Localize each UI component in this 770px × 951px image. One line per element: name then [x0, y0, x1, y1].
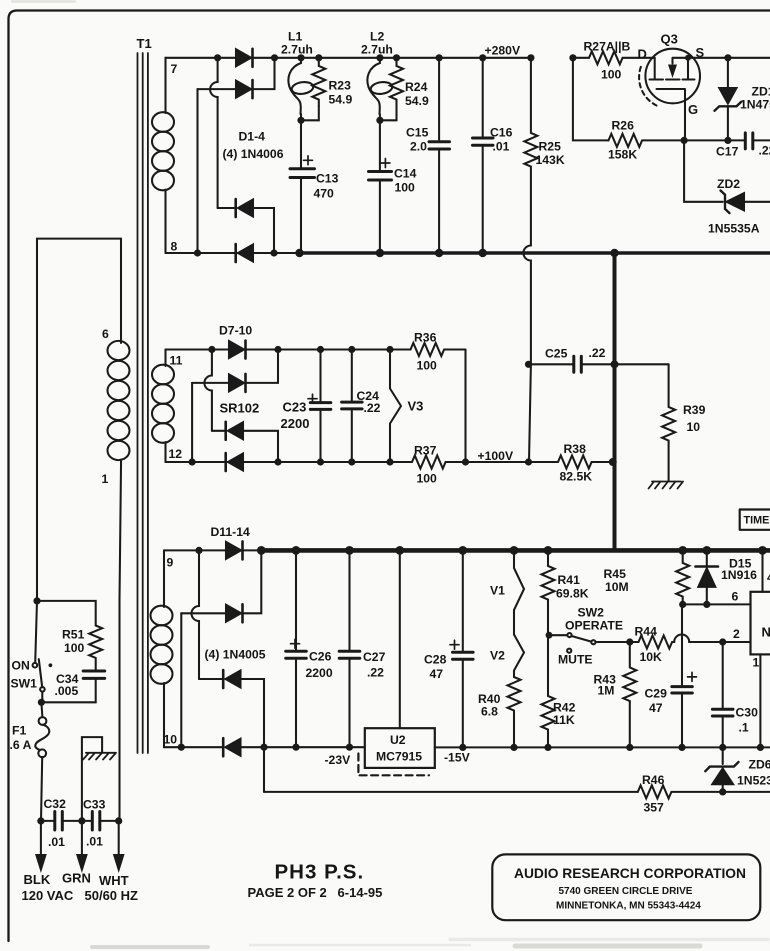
svg-text:MC7915: MC7915: [376, 750, 422, 764]
svg-text:ZD6: ZD6: [749, 758, 770, 772]
svg-text:2200: 2200: [306, 666, 333, 680]
diode D9: [228, 422, 243, 439]
svg-text:C13: C13: [316, 172, 339, 186]
svg-text:10: 10: [164, 733, 178, 747]
svg-text:R36: R36: [414, 331, 437, 345]
diode D2: [236, 81, 251, 98]
resistor R44: [639, 636, 673, 649]
wire D13 anode down across -23V to R46 row: [241, 679, 265, 792]
switch SW1: [35, 601, 37, 663]
svg-text:R23: R23: [329, 79, 352, 93]
diode D3: [238, 200, 253, 217]
svg-text:N: N: [762, 625, 770, 640]
resistor R39: [662, 364, 675, 481]
wire D8 anode row: [192, 382, 229, 384]
node ZD1 top: [724, 54, 731, 61]
svg-text:C28: C28: [424, 653, 447, 667]
wire C25 row: [529, 364, 531, 462]
svg-text:WHT: WHT: [99, 873, 129, 888]
svg-text:PAGE 2 OF 2 6-14-95: PAGE 2 OF 2 6-14-95: [248, 885, 383, 900]
svg-text:11: 11: [170, 354, 183, 368]
inductor L1: [297, 54, 304, 61]
node pin7 junction: [214, 54, 221, 61]
node pin12 left vertical: [189, 458, 196, 465]
resistor R36: [411, 343, 466, 356]
svg-text:69.8K: 69.8K: [556, 587, 589, 601]
svg-text:C16: C16: [490, 126, 513, 140]
svg-text:-15V: -15V: [444, 751, 471, 765]
svg-text:OPERATE: OPERATE: [565, 619, 623, 633]
svg-text:.22: .22: [589, 346, 606, 360]
resistor R45: [678, 546, 687, 555]
node C25 at thick line: [611, 360, 619, 368]
T1 winding 11-12 (secondary 2): [164, 350, 166, 367]
wire D3 cathode row to pin7 vertical: [218, 207, 235, 209]
tube heater V2: [514, 635, 524, 678]
svg-text:(4) 1N4006: (4) 1N4006: [223, 147, 284, 161]
wire pin9: [164, 549, 261, 551]
svg-text:R37: R37: [414, 444, 437, 458]
svg-text:U2: U2: [390, 733, 406, 747]
svg-text:Q3: Q3: [661, 32, 678, 47]
resistor R46: [638, 785, 770, 798]
svg-text:9: 9: [167, 556, 174, 570]
svg-text:7: 7: [171, 62, 178, 76]
resistor R51: [89, 626, 102, 671]
svg-text:SR102: SR102: [220, 401, 260, 416]
wire left vertical pin8 to D2 anode: [196, 89, 198, 253]
diode D14: [226, 739, 241, 756]
capacitor C25: [574, 356, 582, 372]
wire left vertical to pin10: [180, 613, 182, 747]
wire D2 anode row: [198, 88, 237, 90]
company box: [492, 854, 760, 920]
svg-text:D1-4: D1-4: [239, 130, 266, 144]
capacitor C17: [745, 133, 753, 149]
svg-text:V1: V1: [490, 584, 505, 598]
wire pin11 vertical with hop over D8 row: [204, 350, 211, 431]
svg-text:82.5K: 82.5K: [560, 470, 593, 484]
node D9 anode at pin12: [274, 458, 281, 465]
capacitor C32: [55, 812, 63, 831]
svg-text:R38: R38: [564, 442, 587, 456]
wire pin7 rail: [166, 57, 237, 59]
svg-text:D11-14: D11-14: [211, 525, 251, 539]
svg-text:GRN: GRN: [62, 871, 91, 886]
svg-text:158K: 158K: [608, 148, 637, 162]
wire D13 cathode row: [199, 678, 222, 680]
svg-text:C29: C29: [645, 687, 668, 701]
svg-text:1N5535A: 1N5535A: [708, 222, 760, 236]
svg-text:R45: R45: [604, 567, 627, 581]
diode D11: [226, 542, 241, 559]
svg-text:ZD2: ZD2: [717, 177, 740, 191]
svg-text:AUDIO RESEARCH CORPORATION: AUDIO RESEARCH CORPORATION: [514, 866, 746, 881]
TIME box: [740, 510, 770, 530]
switch SW2: [546, 632, 553, 639]
svg-text:54.9: 54.9: [405, 94, 429, 108]
diode D13: [226, 671, 241, 688]
wire R36 right down to +100V node: [464, 350, 466, 463]
wire BLK arrow: [40, 821, 42, 856]
node D8 join: [274, 346, 281, 353]
node WHT: [115, 817, 122, 824]
svg-text:.01: .01: [86, 835, 103, 849]
capacitor C26: [292, 546, 301, 555]
svg-text:100: 100: [64, 641, 85, 655]
wire R51 branch: [37, 601, 96, 626]
IC U2 MC7915: [395, 546, 404, 555]
wire D7 cathode along rail: [246, 348, 411, 350]
svg-text:R41: R41: [558, 573, 581, 587]
svg-text:D7-10: D7-10: [219, 324, 252, 338]
T1 primary winding 6-1: [120, 239, 122, 343]
svg-text:2: 2: [733, 627, 740, 641]
capacitor C33: [92, 812, 100, 831]
resistor R38: [529, 456, 613, 469]
svg-text:MUTE: MUTE: [558, 653, 593, 667]
tube heater V1: [510, 546, 519, 555]
svg-text:R44: R44: [635, 625, 658, 639]
node D3 anode at bus: [270, 249, 277, 256]
zener ZD1: [727, 58, 729, 88]
svg-text:SW2: SW2: [578, 606, 605, 620]
capacitor C14: [369, 172, 392, 181]
svg-text:R46: R46: [642, 773, 665, 787]
node pin9 junction: [195, 547, 202, 554]
svg-text:2.7uh: 2.7uh: [281, 43, 313, 57]
svg-text:47: 47: [430, 667, 444, 681]
svg-text:.01: .01: [493, 140, 510, 154]
svg-text:1N916: 1N916: [721, 568, 757, 582]
capacitor C29: [681, 604, 683, 747]
svg-text:357: 357: [644, 801, 665, 815]
svg-text:G: G: [688, 102, 698, 117]
svg-text:47: 47: [649, 701, 663, 715]
svg-text:(4) 1N4005: (4) 1N4005: [205, 648, 266, 662]
svg-text:ON: ON: [12, 659, 30, 673]
capacitor C30: [722, 642, 724, 747]
svg-text:120 VAC: 120 VAC: [22, 888, 74, 903]
node BLK: [37, 817, 44, 824]
svg-text:6: 6: [732, 590, 739, 604]
wire SW2 common to R44: [596, 641, 639, 643]
capacitor C24: [348, 346, 355, 353]
svg-text:+280V: +280V: [485, 44, 521, 58]
wire pin8 / ground bus top: [166, 252, 300, 254]
svg-text:ZD1: ZD1: [752, 85, 770, 99]
svg-text:C25: C25: [545, 347, 568, 361]
T1 winding 9-10 (secondary 3): [163, 550, 165, 607]
diode D7: [229, 341, 244, 358]
ground below R39: [649, 482, 684, 489]
svg-text:143K: 143K: [536, 153, 565, 167]
wire D1 cathode to +rail: [253, 57, 302, 59]
wire S rail to right edge: [688, 57, 770, 59]
svg-text:BLK: BLK: [24, 872, 51, 887]
svg-text:2.0: 2.0: [410, 140, 427, 154]
wire pin11 rail: [166, 348, 230, 350]
svg-text:C15: C15: [406, 126, 429, 140]
svg-text:54.9: 54.9: [329, 93, 353, 107]
svg-text:1M: 1M: [598, 684, 615, 698]
svg-text:12: 12: [169, 447, 183, 461]
wire L2/R24 bottom join: [380, 106, 397, 170]
resistor R41: [544, 546, 553, 555]
svg-text:TIMER: TIMER: [744, 515, 770, 527]
svg-text:C23: C23: [283, 400, 307, 415]
resistor R23: [312, 58, 325, 106]
capacitor C15: [436, 54, 443, 61]
svg-text:R39: R39: [683, 403, 706, 417]
wire -23V rail to U2: [241, 746, 365, 748]
node R43 top: [626, 638, 633, 645]
resistor R40: [508, 677, 521, 747]
wire pin12 rail: [166, 461, 413, 463]
svg-text:C27: C27: [363, 650, 386, 664]
wire WHT arrow: [118, 821, 120, 856]
wire gate down to ZD2 row: [684, 140, 723, 201]
svg-text:C14: C14: [394, 167, 417, 181]
svg-text:8: 8: [171, 240, 178, 254]
pin 4: [758, 546, 767, 555]
svg-text:.6 A: .6 A: [10, 738, 32, 752]
wire GRN vertical: [81, 753, 83, 821]
wire D12 anode row: [181, 612, 226, 614]
wire D8 cathode up to rail: [246, 350, 279, 383]
node C13 at bus: [295, 249, 303, 257]
resistor R25: [527, 54, 534, 61]
wire pin9 vertical with hop over D12 row: [192, 550, 199, 679]
svg-text:100: 100: [395, 181, 416, 195]
wire R25 hop over ground bus down to C25 node: [523, 246, 530, 365]
svg-text:1: 1: [753, 656, 760, 670]
svg-text:.01: .01: [48, 835, 65, 849]
svg-text:F1: F1: [12, 724, 26, 738]
wire D2 cathode up to rail: [253, 58, 275, 89]
chassis ground: [82, 737, 102, 753]
wire R46 row: [264, 791, 638, 793]
wire D12 cathode up to bus: [243, 550, 262, 613]
svg-text:1N475: 1N475: [740, 98, 770, 112]
svg-text:11K: 11K: [553, 713, 575, 727]
T1 winding 7-8 (secondary 1): [164, 58, 166, 113]
svg-text:D: D: [638, 47, 647, 62]
wire R26 row: [573, 58, 609, 141]
node GRN: [78, 817, 85, 824]
wire D9 cathode row: [212, 430, 225, 432]
svg-text:R26: R26: [612, 119, 635, 133]
svg-text:C17: C17: [716, 145, 739, 159]
svg-text:2200: 2200: [281, 416, 310, 431]
node R51 branch top: [33, 597, 40, 604]
svg-text:100: 100: [417, 472, 438, 486]
diode D15: [702, 546, 711, 555]
svg-text:2.7uh: 2.7uh: [361, 43, 393, 57]
svg-text:.005: .005: [55, 684, 79, 698]
svg-text:1N523: 1N523: [737, 774, 770, 788]
svg-text:100: 100: [417, 359, 438, 373]
svg-text:.22: .22: [364, 401, 381, 415]
resistor R26: [609, 134, 685, 147]
capacitor C16: [479, 54, 486, 61]
capacitor C28: [458, 546, 467, 555]
node pin8 left vertical: [194, 249, 201, 256]
pin 2: [719, 638, 726, 645]
wire +rail L1 to L2 to +280V: [301, 57, 531, 59]
capacitor C34: [83, 671, 105, 678]
diode D4: [238, 245, 253, 262]
transformer T1 core: [138, 53, 148, 753]
fuse F1: [39, 717, 47, 725]
svg-text:L2: L2: [370, 30, 384, 44]
svg-text:V2: V2: [490, 649, 505, 663]
node pin11 junction: [208, 346, 215, 353]
op-amp U? (IC N, clipped): [751, 592, 770, 655]
svg-text:-23V: -23V: [325, 753, 352, 767]
diode D8: [229, 374, 244, 391]
wire GRN arrow: [81, 821, 83, 856]
wire left vertical to pin12: [191, 383, 193, 462]
svg-text:R51: R51: [62, 628, 85, 642]
svg-text:R24: R24: [405, 80, 428, 94]
svg-text:50/60 HZ: 50/60 HZ: [85, 888, 139, 903]
wire R44 to pin2 with hop over C29 line: [673, 635, 751, 642]
svg-text:C32: C32: [44, 797, 67, 811]
ground bus (thick): [261, 548, 770, 553]
svg-text:+100V: +100V: [478, 449, 514, 463]
svg-text:.22: .22: [759, 144, 770, 158]
svg-text:10M: 10M: [605, 580, 629, 594]
wire vertical from pin7 junction with hop over D2 row: [210, 58, 217, 208]
node R25ext / R38: [525, 458, 532, 465]
wire L1/R23 bottom join: [301, 106, 319, 167]
zener ZD2: [727, 193, 745, 210]
svg-text:100: 100: [601, 68, 622, 82]
resistor R37: [412, 456, 529, 469]
wire -15V rail: [435, 746, 770, 748]
svg-text:6.8: 6.8: [481, 705, 498, 719]
svg-text:C30: C30: [736, 706, 759, 720]
svg-text:5740 GREEN CIRCLE DRIVE: 5740 GREEN CIRCLE DRIVE: [559, 886, 693, 897]
wire gate node to ZD1 node to C17: [684, 139, 745, 141]
svg-text:R27A||B: R27A||B: [584, 40, 631, 54]
transistor Q3 (MOSFET): [645, 49, 700, 104]
zener ZD6: [722, 747, 724, 764]
wire pin10 rail: [164, 746, 222, 748]
svg-text:1: 1: [102, 472, 109, 486]
svg-text:6: 6: [102, 327, 109, 341]
node pin10 left vertical: [178, 744, 185, 751]
svg-text:C33: C33: [83, 798, 106, 812]
tube heater V3: [386, 346, 393, 353]
resistor R27A||B: [573, 51, 655, 64]
node D1-D2 cathode join: [271, 54, 278, 61]
capacitor C27: [345, 546, 354, 555]
wire F1 to BLK node: [41, 757, 42, 821]
resistor R43: [623, 642, 636, 747]
wire pin6 row: [683, 603, 751, 605]
diode D1: [236, 49, 251, 66]
wire D9 anode down to pin12: [243, 431, 278, 462]
wire thick vertical bus link: [613, 253, 617, 550]
resistor R24: [390, 58, 403, 106]
node R26 takeoff: [569, 54, 576, 61]
svg-text:T1: T1: [137, 36, 152, 51]
pin 1: [759, 654, 761, 747]
resistor R42: [542, 634, 555, 747]
inductor L2: [376, 54, 383, 61]
capacitor C23: [317, 346, 324, 353]
svg-text:R25: R25: [539, 140, 562, 154]
wire primary loop top: [37, 239, 121, 601]
diode D12: [226, 605, 241, 622]
svg-text:10K: 10K: [640, 650, 663, 664]
svg-text:PH3 P.S.: PH3 P.S.: [275, 861, 365, 884]
svg-text:SW1: SW1: [11, 677, 38, 691]
svg-text:.22: .22: [367, 666, 384, 680]
svg-text:V3: V3: [408, 399, 424, 414]
svg-text:C26: C26: [309, 650, 332, 664]
svg-text:.1: .1: [739, 721, 749, 735]
svg-text:10: 10: [687, 420, 701, 434]
diode D10: [228, 454, 243, 471]
capacitor C13: [290, 169, 315, 178]
wire D3 anode down to pin8 bus: [253, 208, 274, 253]
svg-text:L1: L1: [288, 30, 302, 44]
svg-text:MINNETONKA, MN 55343-4424: MINNETONKA, MN 55343-4424: [556, 901, 701, 912]
svg-text:470: 470: [314, 187, 335, 201]
